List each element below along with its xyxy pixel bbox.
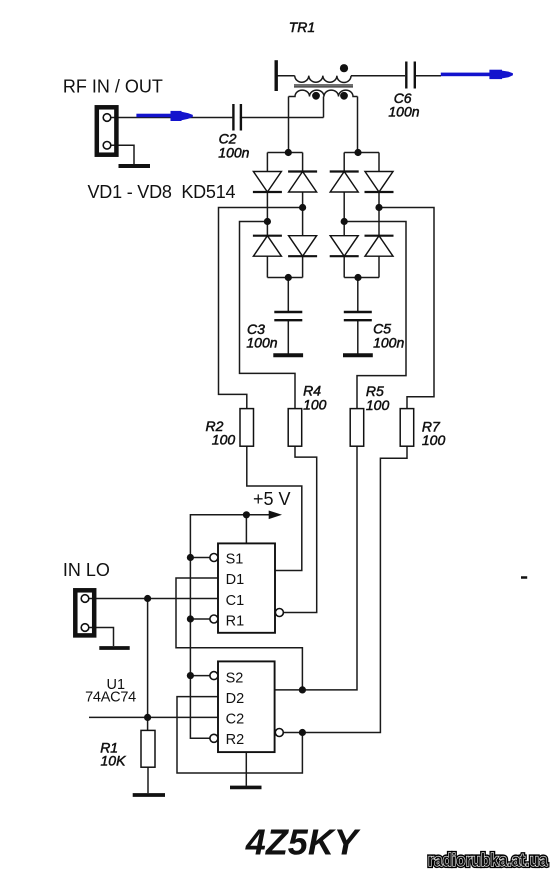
svg-text:TR1: TR1 [289, 19, 315, 35]
svg-text:C1: C1 [226, 593, 245, 609]
svg-text:100: 100 [212, 431, 236, 447]
svg-text:D2: D2 [226, 691, 245, 707]
svg-text:74AC74: 74AC74 [85, 689, 136, 705]
svg-text:+5 V: +5 V [253, 489, 291, 509]
svg-text:100: 100 [366, 397, 390, 413]
svg-text:R1: R1 [226, 613, 245, 629]
svg-text:100: 100 [422, 432, 446, 448]
svg-text:radiorubka.at.ua: radiorubka.at.ua [428, 850, 548, 870]
svg-text:4Z5KY: 4Z5KY [245, 822, 361, 863]
svg-text:100n: 100n [246, 335, 277, 351]
svg-text:C2: C2 [226, 712, 245, 728]
svg-text:D1: D1 [226, 572, 245, 588]
svg-text:100: 100 [303, 397, 327, 413]
svg-text:S1: S1 [226, 552, 244, 568]
svg-text:VD1 - VD8 KD514: VD1 - VD8 KD514 [88, 182, 236, 202]
svg-text:100n: 100n [373, 334, 404, 350]
svg-text:S2: S2 [226, 671, 244, 687]
svg-text:RF IN / OUT: RF IN / OUT [63, 77, 163, 97]
svg-text:R2: R2 [226, 732, 245, 748]
svg-text:IN LO: IN LO [63, 560, 110, 580]
svg-text:10K: 10K [101, 753, 127, 769]
svg-text:100n: 100n [388, 104, 419, 120]
svg-text:100n: 100n [218, 145, 249, 161]
